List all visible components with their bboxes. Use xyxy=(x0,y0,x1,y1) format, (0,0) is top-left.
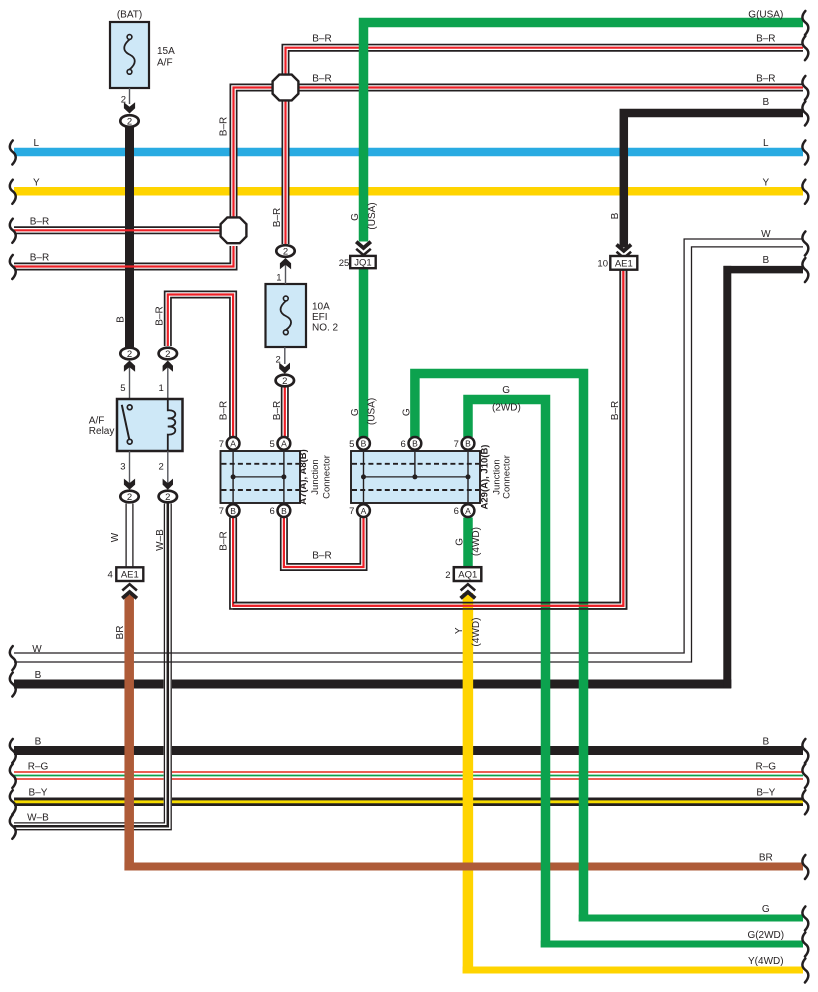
svg-text:B–R: B–R xyxy=(312,551,331,562)
svg-text:(USA): (USA) xyxy=(367,202,378,229)
junction connector A29(A),J10(B) box xyxy=(351,451,480,503)
wire Y yellow from AQ1 down to bottom right xyxy=(463,593,474,974)
svg-text:2: 2 xyxy=(282,376,287,387)
svg-text:W: W xyxy=(32,644,42,655)
svg-text:G: G xyxy=(402,408,413,416)
torn mark R-G left xyxy=(10,764,16,788)
svg-text:G: G xyxy=(350,213,361,221)
wire B bus bottom (black) xyxy=(14,746,803,755)
svg-text:2: 2 xyxy=(445,570,450,581)
svg-text:W–B: W–B xyxy=(155,529,166,551)
svg-text:B: B xyxy=(35,670,42,681)
svg-text:G(2WD): G(2WD) xyxy=(747,930,784,941)
svg-text:2: 2 xyxy=(127,492,132,503)
torn mark W right xyxy=(802,231,808,255)
torn mark B right top xyxy=(802,101,808,125)
torn mark B left mid xyxy=(10,672,16,696)
relay pin 1 stub + arrow up into oval xyxy=(159,361,173,400)
svg-text:B–R: B–R xyxy=(756,74,775,85)
torn mark B right second xyxy=(802,258,808,282)
torn mark G(2WD) right xyxy=(802,932,808,956)
svg-text:10: 10 xyxy=(597,258,608,269)
connector2 pin 7(A) bottom xyxy=(349,504,370,517)
torn mark G(USA) right xyxy=(802,11,808,35)
svg-text:6: 6 xyxy=(401,439,406,450)
svg-text:G(USA): G(USA) xyxy=(748,9,783,20)
connector AE1 right box xyxy=(597,256,637,270)
svg-text:B–R: B–R xyxy=(272,401,283,420)
svg-text:B–R: B–R xyxy=(219,531,230,550)
svg-text:B: B xyxy=(762,737,769,748)
pin 1 of EFI fuse + stub + arrow up into oval xyxy=(276,258,291,284)
connector JQ1 box xyxy=(339,256,376,269)
torn mark Y(4WD) right xyxy=(802,958,808,982)
relay pin 3 stub + arrow down into oval xyxy=(120,451,135,490)
wire B-R left bus 1 into octagon xyxy=(14,227,222,233)
connector AE1 left box xyxy=(108,567,144,581)
oval connector 2 below relay pin 3 xyxy=(120,491,138,503)
svg-text:7: 7 xyxy=(219,506,224,517)
oval connector 2 below relay pin 2 xyxy=(159,491,177,503)
torn mark W left xyxy=(10,646,16,670)
svg-text:B: B xyxy=(762,255,769,266)
svg-text:G: G xyxy=(350,408,361,416)
svg-text:R–G: R–G xyxy=(28,762,49,773)
svg-text:Relay: Relay xyxy=(89,426,115,437)
svg-text:(BAT): (BAT) xyxy=(117,10,142,21)
torn marks left edge xyxy=(10,140,16,838)
svg-text:B: B xyxy=(465,439,471,449)
connector JQ1 chevron (down) xyxy=(356,242,371,255)
wire B bus middle (black, corner up right side) xyxy=(14,680,731,689)
svg-text:6: 6 xyxy=(454,506,459,517)
oval connector 2 above relay pin 1 xyxy=(159,348,177,360)
connector AE1 right chevron (down) xyxy=(617,245,632,258)
svg-text:B–R: B–R xyxy=(219,401,230,420)
wire W bus (white) left edge to top right xyxy=(14,239,803,662)
connector2 pin 6(B) top xyxy=(401,437,422,450)
svg-text:W: W xyxy=(761,229,771,240)
svg-text:(4WD): (4WD) xyxy=(471,527,482,556)
torn mark B-R2 left xyxy=(10,255,16,279)
connector2 pin 5(B) top xyxy=(349,437,370,450)
svg-text:25: 25 xyxy=(339,258,350,269)
torn mark R-G right xyxy=(802,764,808,788)
torn mark B-R1 right xyxy=(802,36,808,60)
torn marks right edge xyxy=(802,11,808,983)
svg-text:2: 2 xyxy=(165,492,170,503)
torn mark B-R1 left xyxy=(10,219,16,243)
wire L bus (blue) xyxy=(14,148,803,157)
svg-text:G: G xyxy=(454,538,465,546)
svg-text:(2WD): (2WD) xyxy=(492,403,521,414)
svg-text:5: 5 xyxy=(120,383,125,394)
svg-text:B–R: B–R xyxy=(312,34,331,45)
svg-text:2: 2 xyxy=(283,246,288,257)
svg-text:NO. 2: NO. 2 xyxy=(312,323,339,334)
torn mark B right bottom xyxy=(802,739,808,763)
junction octagon 2 xyxy=(221,217,247,243)
wire B-R top bus 1 (corner down into octagon top) xyxy=(286,48,804,74)
svg-text:5: 5 xyxy=(349,439,354,450)
svg-text:A29(A), J10(B): A29(A), J10(B) xyxy=(480,445,491,510)
relay pin 2 stub + arrow down into oval xyxy=(159,451,173,490)
svg-text:B: B xyxy=(281,506,287,516)
svg-text:R–G: R–G xyxy=(756,762,777,773)
torn mark W-B left xyxy=(10,815,16,839)
fuse 10A EFI NO.2 box xyxy=(266,284,307,347)
wire BR brown from AE1 left down to bottom right xyxy=(124,595,134,871)
svg-text:L: L xyxy=(34,138,40,149)
svg-text:A: A xyxy=(361,506,367,516)
svg-text:2: 2 xyxy=(159,462,164,473)
torn mark B-Y right xyxy=(802,790,808,814)
svg-text:Connector: Connector xyxy=(501,455,512,499)
svg-text:10A: 10A xyxy=(312,302,330,313)
torn mark BR right xyxy=(802,855,808,879)
svg-text:G: G xyxy=(502,385,510,396)
svg-text:B: B xyxy=(116,316,127,323)
svg-text:A: A xyxy=(281,439,287,449)
svg-text:3: 3 xyxy=(120,462,125,473)
wire W-B from relay pin 2 down and left to edge xyxy=(14,504,171,830)
svg-text:Y(4WD): Y(4WD) xyxy=(748,956,784,967)
connector AQ1 box xyxy=(445,567,481,581)
svg-text:BR: BR xyxy=(759,853,773,864)
torn mark L right xyxy=(802,140,808,164)
torn mark B left bottom xyxy=(10,739,16,763)
svg-text:B–Y: B–Y xyxy=(29,788,48,799)
svg-text:4: 4 xyxy=(108,570,113,581)
svg-text:1: 1 xyxy=(276,273,281,284)
svg-text:B: B xyxy=(412,439,418,449)
svg-text:2: 2 xyxy=(165,349,170,360)
svg-text:AE1: AE1 xyxy=(615,258,633,269)
svg-text:W: W xyxy=(110,532,121,542)
svg-text:Connector: Connector xyxy=(322,455,333,499)
connector1 pin 6(B) bottom xyxy=(270,504,291,517)
svg-text:B–R: B–R xyxy=(219,117,230,136)
svg-text:G: G xyxy=(762,904,770,915)
svg-text:B: B xyxy=(35,737,42,748)
svg-text:B–R: B–R xyxy=(610,401,621,420)
svg-text:EFI: EFI xyxy=(312,312,328,323)
svg-text:Y: Y xyxy=(762,178,769,189)
connector AE1 left chevron (up) xyxy=(122,584,137,598)
svg-text:B: B xyxy=(610,212,621,219)
wire Y bus (yellow) xyxy=(14,187,803,196)
svg-text:B: B xyxy=(361,439,367,449)
connector2 pin 6(A) bottom xyxy=(454,504,475,517)
wire B-R octagon1 left to octagon2 top (white filled) xyxy=(234,88,273,218)
svg-text:7: 7 xyxy=(219,439,224,450)
svg-text:15A: 15A xyxy=(157,46,175,57)
pin 2 of EFI fuse + stub + arrow down into oval xyxy=(276,347,290,374)
wire B bus top right (black, corner down to AE1) xyxy=(624,113,803,248)
svg-text:A: A xyxy=(465,506,471,516)
svg-text:(4WD): (4WD) xyxy=(471,618,482,647)
svg-text:B–R: B–R xyxy=(312,74,331,85)
torn mark G right xyxy=(802,906,808,930)
wire G (USA) green vertical and top bus xyxy=(364,23,804,438)
torn mark B-Y left xyxy=(10,790,16,814)
label A29(A), J10(B) Junction Connector (rotated) xyxy=(480,445,513,510)
wire B black from 15A fuse oval down to relay oval xyxy=(125,126,134,347)
connector1 pin 7(A) top xyxy=(219,437,240,450)
svg-text:B: B xyxy=(230,506,236,516)
connector1 pin 5(A) top xyxy=(270,437,291,450)
svg-text:B–R: B–R xyxy=(272,208,283,227)
connector1 pin 7(B) bottom xyxy=(219,504,240,517)
label A7(A), A8(B) Junction Connector (rotated) xyxy=(298,449,333,505)
wire B-R redraw transparent over greens/yellow (AE1 right leg) xyxy=(233,270,626,609)
svg-text:6: 6 xyxy=(270,506,275,517)
wire B-Y bus xyxy=(14,798,803,807)
svg-text:7: 7 xyxy=(349,506,354,517)
svg-text:B: B xyxy=(762,97,769,108)
svg-text:B–R: B–R xyxy=(756,34,775,45)
wire B-R octagon1 bottom to oval (white filled) xyxy=(282,101,290,244)
svg-text:A7(A), A8(B): A7(A), A8(B) xyxy=(298,449,309,505)
torn mark B-R2 right xyxy=(802,76,808,100)
svg-text:B–R: B–R xyxy=(155,306,166,325)
svg-text:5: 5 xyxy=(270,439,275,450)
svg-text:W–B: W–B xyxy=(27,812,49,823)
wire B-R connector A7 pin 7B down right and up to AE1 (base, redrawn on top later) xyxy=(233,270,623,606)
wire B-R top bus 2 from octagon right xyxy=(299,84,803,92)
oval connector 2 below octagon / above EFI fuse xyxy=(276,245,294,257)
svg-text:B–R: B–R xyxy=(30,253,49,264)
svg-text:2: 2 xyxy=(127,116,132,127)
relay A/F box xyxy=(117,399,183,451)
junction octagon 1 xyxy=(273,75,299,101)
wire G green connector2 pin 6B loop to bottom right bus xyxy=(415,374,584,922)
torn mark L left xyxy=(10,140,16,164)
svg-text:Junction: Junction xyxy=(310,459,321,494)
oval connector 2 above relay pin 5 xyxy=(120,348,138,360)
svg-text:AE1: AE1 xyxy=(121,570,139,581)
wire G (4WD) green connector2 pin 6A down to AQ1 xyxy=(463,518,473,569)
connector AQ1 chevron (up) xyxy=(461,584,476,598)
wire B-R relay pin1 loop up over to connector A7 pin 7A xyxy=(168,295,233,438)
svg-text:1: 1 xyxy=(159,383,164,394)
svg-text:B–R: B–R xyxy=(30,216,49,227)
wire R-G bus xyxy=(14,772,803,779)
wire B-R left bus 2 corner up into octagon bottom xyxy=(14,246,237,270)
svg-text:JQ1: JQ1 xyxy=(354,258,371,269)
svg-text:7: 7 xyxy=(454,439,459,450)
svg-text:Y: Y xyxy=(33,178,40,189)
oval connector 2 below EFI fuse xyxy=(276,375,294,387)
svg-text:A/F: A/F xyxy=(157,58,173,69)
torn mark Y right xyxy=(802,180,808,204)
fuse 15A A/F box xyxy=(110,22,149,88)
relay pin 5 stub + arrow up into oval xyxy=(120,361,135,400)
svg-text:L: L xyxy=(763,138,769,149)
oval connector 2 below 15A fuse xyxy=(120,115,138,127)
svg-text:(USA): (USA) xyxy=(366,398,377,425)
svg-text:A: A xyxy=(230,439,236,449)
svg-text:B–Y: B–Y xyxy=(756,788,775,799)
wire G (2WD) green connector2 pin 7B loop to bottom right bus xyxy=(468,400,546,948)
torn mark Y left xyxy=(10,180,16,204)
wire W from relay pin 3 oval down to AE1 left xyxy=(126,504,133,568)
svg-text:Y: Y xyxy=(454,627,465,634)
wire B-R EFI fuse oval down to connector pin 5A xyxy=(281,387,289,437)
wire B-R connector1 pin 6B to connector2 pin 7A xyxy=(284,518,364,568)
svg-text:2: 2 xyxy=(127,349,132,360)
junction connector A7(A),A8(B) box xyxy=(221,451,301,503)
svg-text:BR: BR xyxy=(115,626,126,640)
pin 2 of 15A fuse + stub + arrow down into oval xyxy=(121,88,135,114)
connector2 pin 7(B) top xyxy=(454,437,475,450)
svg-text:AQ1: AQ1 xyxy=(458,570,477,581)
